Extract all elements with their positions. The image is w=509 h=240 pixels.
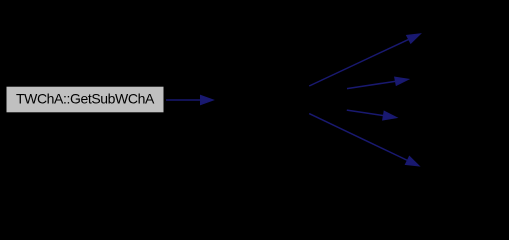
edge: TWChA::GetSubWChA -> center node [166, 95, 213, 104]
center callee node (black on black, invisible) [214, 87, 347, 114]
callee node 4 (bottom, invisible) [419, 167, 480, 194]
edge: center node -> callee node 2 (upper middle) [347, 77, 409, 88]
edge: center node -> callee node 3 (lower middle) [347, 110, 397, 120]
callee node 2 (upper middle, invisible) [409, 61, 490, 88]
edge: center node -> callee node 4 (bottom) [309, 114, 419, 166]
svg-text:TWChA::GetSubWChA: TWChA::GetSubWChA [16, 91, 155, 107]
callee node 3 (lower middle, invisible) [397, 115, 503, 142]
edge: center node -> callee node 1 (top) [309, 34, 420, 86]
node TWChA::GetSubWChA [6, 86, 164, 113]
callee node 1 (top, invisible) [421, 7, 478, 34]
